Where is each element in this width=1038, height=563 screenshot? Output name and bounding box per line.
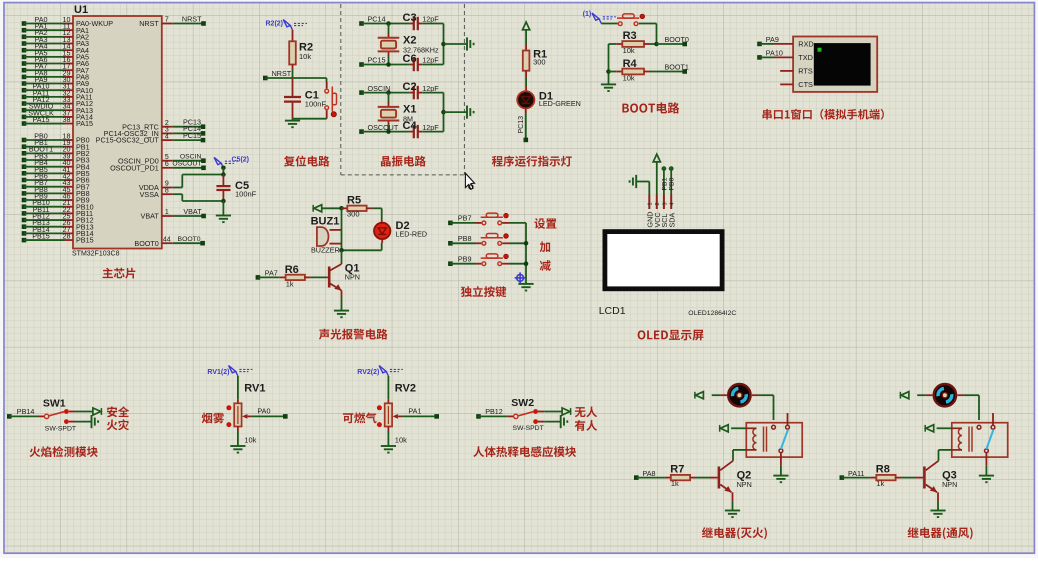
svg-text:LED-GREEN: LED-GREEN [539, 99, 581, 108]
svg-text:BUZ1: BUZ1 [311, 216, 340, 228]
svg-text:100nF: 100nF [235, 190, 257, 199]
label 声光报警电路 [319, 329, 388, 340]
transistor Q1 NPN [328, 263, 360, 311]
svg-text:PB8: PB8 [458, 234, 472, 243]
svg-text:PA7: PA7 [265, 269, 278, 278]
ground (Q2) [725, 511, 740, 518]
LED D2 LED-RED [342, 208, 428, 250]
node OSCIN rail [359, 84, 409, 95]
node PC14 rail [359, 15, 409, 26]
U1 left pin 31 PA10 [22, 82, 93, 95]
ground (C5) [216, 201, 231, 222]
U1 left pin 27 PB14 [22, 225, 94, 238]
capacitor C3 12pF [403, 12, 444, 30]
label 火焰检测模块 [30, 446, 98, 457]
svg-text:BUZZER: BUZZER [311, 246, 340, 255]
ground (BOOT) [601, 84, 616, 91]
svg-text:28: 28 [63, 231, 71, 240]
label 人体热释电感应模块 [473, 446, 576, 457]
svg-text:OLED12864I2C: OLED12864I2C [688, 310, 736, 317]
svg-text:R3: R3 [623, 30, 637, 42]
node BOOT0 [657, 35, 689, 47]
ground (X1) [467, 106, 474, 119]
label 复位电路 [284, 156, 330, 167]
svg-text:PB7: PB7 [458, 214, 472, 223]
power arrow (motor 通风) [900, 392, 932, 399]
pin PB0 to SDA [669, 166, 676, 194]
U1 right pin 1 VBAT [141, 207, 206, 221]
U1 right pin 4 PC15-OSC32_OUT [96, 131, 206, 145]
push button PB9 [448, 254, 526, 266]
capacitor C1 100nF [284, 78, 326, 119]
ground (RV1) [230, 427, 245, 453]
svg-text:PC15: PC15 [368, 56, 386, 65]
svg-text:BOOT0: BOOT0 [665, 35, 689, 44]
power arrow (alarm) [313, 205, 344, 212]
node OSCOUT rail [359, 123, 409, 134]
ground (relay contact 通风) [979, 453, 994, 483]
label 程序运行指示灯 [492, 156, 572, 167]
svg-text:TXD: TXD [798, 53, 813, 62]
svg-text:U1: U1 [74, 4, 88, 16]
U1 left pin 29 PA8 [22, 68, 89, 81]
pin CTS stub [780, 83, 793, 85]
label BOOT电路 [622, 102, 679, 113]
svg-text:PA11: PA11 [848, 469, 865, 478]
ground (buttons) [518, 284, 533, 291]
resistor R3 10k [609, 30, 659, 55]
node NRST wire [263, 69, 327, 80]
power arrow (R1) [523, 22, 530, 45]
probe C5(2) [214, 157, 249, 168]
svg-text:PB15: PB15 [76, 236, 94, 245]
ground (Q3) [930, 511, 945, 518]
svg-text:4: 4 [165, 133, 169, 140]
U1 right pin 44 BOOT0 [134, 236, 204, 248]
label 减 [540, 260, 551, 271]
U1 left pin 26 PB13 [22, 218, 94, 231]
BOOT push button [601, 14, 656, 44]
U1 left pin 10 PA0 [22, 15, 114, 28]
buzzer BUZ1 [311, 216, 342, 255]
crystal X2 32.768KHz [378, 24, 439, 65]
svg-text:R4: R4 [623, 58, 638, 70]
svg-text:2: 2 [655, 202, 661, 205]
svg-text:SDA: SDA [668, 213, 677, 228]
U1 left pin 18 PB0 [22, 131, 90, 144]
U1 left pin 38 PA15 [22, 115, 93, 128]
LED D1 LED-GREEN [517, 86, 581, 113]
motor (通风) [934, 384, 956, 406]
wire R3-R4 left rail [606, 44, 611, 84]
IC U1 STM32F103C8 body [72, 4, 162, 257]
U1 left pin 11 PA1 [22, 22, 89, 35]
svg-text:LCD1: LCD1 [599, 305, 626, 317]
ground (OLED GND) [630, 175, 650, 195]
svg-text:3: 3 [662, 202, 668, 205]
svg-text:C2: C2 [403, 81, 417, 93]
svg-text:1: 1 [165, 209, 169, 216]
svg-text:RV1: RV1 [244, 383, 265, 395]
dashed box 晶振电路 [341, 4, 465, 175]
ground 有人 [538, 415, 567, 428]
label 烟雾 [202, 413, 224, 424]
wire motor to relay [957, 395, 979, 420]
U1 left pin 13 PA3 [22, 35, 89, 48]
svg-text:PA9: PA9 [766, 35, 779, 44]
svg-text:R7: R7 [670, 463, 684, 475]
label 无人 [575, 406, 597, 417]
svg-text:RV2(2): RV2(2) [357, 369, 379, 376]
label 安全 [107, 406, 129, 417]
svg-text:38: 38 [63, 115, 71, 124]
switch SW1 SW-SPDT [7, 398, 76, 433]
label 串口1窗口（模拟手机端） [763, 109, 884, 120]
svg-text:10k: 10k [299, 52, 311, 61]
svg-text:R5: R5 [347, 195, 361, 207]
svg-text:PC15-OSC32_OUT: PC15-OSC32_OUT [96, 136, 160, 145]
svg-text:7: 7 [165, 17, 169, 24]
label 主芯片 [103, 268, 136, 279]
svg-text:NPN: NPN [345, 273, 360, 282]
transistor Q3 NPN [923, 461, 957, 511]
svg-text:PB0: PB0 [669, 177, 676, 190]
label OLED显示屏 [638, 330, 704, 341]
svg-text:VBAT: VBAT [183, 207, 202, 216]
resistor R2 10k [289, 30, 313, 78]
svg-text:1k: 1k [286, 279, 294, 288]
svg-text:SW-SPDT: SW-SPDT [45, 425, 76, 432]
svg-text:BOOT0: BOOT0 [134, 239, 158, 248]
label 有人 [575, 420, 597, 431]
label 设置 [534, 218, 556, 229]
svg-text:STM32F103C8: STM32F103C8 [72, 250, 120, 257]
svg-text:RV1(2): RV1(2) [207, 369, 229, 376]
svg-text:PA8: PA8 [643, 469, 656, 478]
U1 left pin 33 PA12 [22, 95, 93, 108]
relay RL (灭火) [746, 413, 802, 457]
power arrow (motor 灭火) [695, 392, 727, 399]
U1 right pin 6 OSCOUT_PD1 [110, 161, 206, 173]
svg-text:PB14: PB14 [17, 407, 35, 416]
svg-text:100nF: 100nF [305, 100, 327, 109]
svg-text:PB12: PB12 [485, 407, 503, 416]
power arrow (coil 灭火) [720, 425, 747, 432]
origin marker [515, 272, 526, 283]
wire alarm vertical [339, 208, 344, 262]
resistor R8 1k [840, 463, 924, 488]
U1 left pin 17 PA7 [22, 62, 89, 75]
potentiometer RV1 10k [226, 376, 265, 444]
node PC15 rail [359, 56, 409, 67]
U1 left pin 34 SWDIO [22, 102, 93, 115]
svg-text:10k: 10k [623, 73, 635, 82]
svg-text:10k: 10k [395, 435, 407, 444]
svg-text:1k: 1k [671, 479, 679, 488]
wire wiper to PA1 [402, 407, 439, 419]
ground (RV2) [381, 427, 396, 453]
push button PB8 [448, 234, 526, 246]
svg-text:RXD: RXD [798, 40, 813, 49]
wire PA9 to RXD [757, 35, 793, 46]
svg-text:R6: R6 [285, 264, 299, 276]
capacitor C4 12pF [403, 120, 444, 138]
label 晶振电路 [381, 156, 426, 167]
svg-text:12pF: 12pF [422, 123, 439, 132]
svg-text:OSCOUT_PD1: OSCOUT_PD1 [110, 163, 159, 172]
svg-text:PC13: PC13 [518, 116, 525, 134]
power arrow 无人 [538, 408, 571, 415]
ground (X2) [467, 37, 474, 50]
U1 left pin 37 SWCLK [22, 108, 93, 121]
power arrow (coil 通风) [925, 425, 952, 432]
U1 left pin 43 PB7 [22, 178, 90, 191]
svg-text:PC14: PC14 [368, 15, 386, 24]
U1 left pin 21 PB10 [22, 198, 94, 211]
svg-text:C6: C6 [403, 53, 417, 65]
svg-text:(1): (1) [583, 11, 592, 18]
svg-text:R2(2): R2(2) [266, 21, 284, 28]
svg-text:PA15: PA15 [32, 115, 49, 124]
U1 left pin 12 PA2 [22, 28, 89, 41]
crystal X1 8M [378, 93, 417, 132]
transistor Q2 NPN [718, 461, 752, 511]
wire button bus [524, 223, 529, 284]
wire PC13 net [518, 113, 528, 142]
svg-text:10k: 10k [623, 46, 635, 55]
svg-text:1: 1 [648, 202, 654, 205]
resistor R6 1k [256, 264, 328, 289]
label 可燃气 [343, 412, 377, 423]
U1 left pin 32 PA11 [22, 88, 93, 101]
U1 left pin 25 PB12 [22, 211, 94, 224]
wire PA10 to TXD [757, 49, 793, 60]
wire motor to relay [752, 395, 774, 420]
svg-text:VSSA: VSSA [140, 190, 159, 199]
svg-text:BOOT1: BOOT1 [665, 62, 689, 71]
svg-text:PB9: PB9 [458, 255, 472, 264]
svg-text:6: 6 [165, 161, 169, 168]
svg-text:PB15: PB15 [32, 231, 50, 240]
svg-text:PB1: PB1 [661, 177, 668, 190]
capacitor C5 100nF [216, 166, 256, 204]
U1 right pin 9 VDDA [139, 181, 182, 192]
motor (灭火) [728, 384, 750, 406]
svg-text:NRST: NRST [139, 19, 159, 28]
U1 left pin 22 PB11 [22, 205, 93, 218]
wire VSSA branch [182, 194, 223, 201]
resistor R7 1k [634, 463, 718, 488]
reset push button [293, 78, 337, 119]
svg-text:OSCIN: OSCIN [180, 154, 202, 161]
resistor R4 10k [609, 58, 689, 83]
U1 left pin 40 PB4 [22, 158, 90, 171]
U1 left pin 45 PB8 [22, 185, 90, 198]
svg-text:44: 44 [163, 236, 171, 243]
svg-text:PA1: PA1 [408, 407, 421, 416]
svg-text:PA15: PA15 [76, 119, 93, 128]
svg-text:SW1: SW1 [43, 398, 66, 410]
OLED header pins [645, 195, 676, 228]
wire wiper to PA0 [252, 407, 288, 419]
switch SW2 SW-SPDT [476, 397, 544, 432]
svg-text:300: 300 [347, 209, 360, 218]
U1 left pin 28 PB15 [22, 231, 94, 244]
wire VDDA branch [182, 175, 223, 188]
potentiometer RV2 10k [377, 376, 416, 444]
svg-text:C3: C3 [403, 12, 417, 24]
probe (1) [583, 11, 616, 24]
U1 left pin 30 PA9 [22, 75, 89, 88]
wire right rail X2 [441, 24, 467, 65]
relay RL (通风) [952, 413, 1008, 457]
svg-text:PC15: PC15 [183, 131, 201, 140]
capacitor C2 12pF [403, 81, 444, 99]
power arrow (OLED VCC) [653, 154, 660, 194]
U1 right pin 7 NRST [139, 14, 206, 28]
pin RTS stub [780, 70, 793, 72]
OLED LCD1 screen [599, 232, 737, 317]
svg-text:PA10: PA10 [766, 49, 783, 58]
resistor R5 300 [342, 195, 382, 219]
U1 right pin 2 PC13_RTC [122, 118, 205, 132]
svg-text:1k: 1k [876, 479, 884, 488]
U1 left pin 20 BOOT1 [22, 145, 90, 158]
probe RV2(2) [357, 366, 403, 376]
U1 left pin 19 PB1 [22, 138, 90, 151]
wire coil to collector [939, 450, 952, 461]
push button PB7 [448, 213, 526, 225]
virtual terminal box [793, 37, 877, 92]
svg-text:NPN: NPN [737, 480, 752, 489]
svg-text:OSCOUT: OSCOUT [172, 161, 201, 168]
svg-text:4: 4 [670, 202, 676, 205]
svg-text:LED-RED: LED-RED [396, 230, 428, 239]
svg-text:C5(2): C5(2) [232, 157, 250, 164]
pin PB1 to SCL [661, 166, 668, 194]
svg-text:NRST: NRST [272, 69, 292, 78]
svg-text:C4: C4 [403, 120, 418, 132]
power arrow 安全 [69, 408, 102, 415]
U1 left pin 42 PB6 [22, 171, 90, 184]
svg-text:12pF: 12pF [422, 84, 439, 93]
U1 left pin 46 PB9 [22, 191, 90, 204]
U1 right pin 3 PC14-OSC32_IN [104, 124, 206, 138]
svg-text:SW2: SW2 [511, 397, 534, 409]
label 继电器(灭火) [702, 527, 767, 539]
svg-text:PA0: PA0 [257, 407, 270, 416]
resistor R1 300 [523, 45, 547, 87]
svg-text:12pF: 12pF [422, 56, 439, 65]
capacitor C6 12pF [403, 53, 444, 71]
svg-text:12pF: 12pF [422, 15, 439, 24]
mouse cursor [465, 173, 474, 189]
ground 火灾 [69, 415, 98, 428]
U1 left pin 41 PB5 [22, 165, 90, 178]
U1 left pin 15 PA5 [22, 48, 89, 61]
svg-text:SW-SPDT: SW-SPDT [513, 425, 544, 432]
label 独立按键 [461, 286, 506, 297]
svg-text:OSCOUT: OSCOUT [368, 123, 399, 132]
probe R2(2) [266, 20, 308, 30]
U1 left pin 39 PB3 [22, 151, 90, 164]
svg-text:R8: R8 [876, 463, 890, 475]
svg-text:BOOT0: BOOT0 [178, 236, 201, 243]
ground (relay contact 灭火) [773, 453, 788, 483]
probe RV1(2) [207, 366, 252, 376]
U1 right pin 8 VSSA [140, 187, 183, 198]
svg-text:300: 300 [533, 57, 546, 66]
svg-text:CTS: CTS [798, 80, 813, 89]
ground (reset) [285, 119, 300, 128]
ground (Q1) [334, 311, 349, 318]
wire coil to collector [733, 450, 746, 461]
svg-text:NPN: NPN [942, 480, 957, 489]
svg-text:8: 8 [165, 187, 169, 194]
svg-text:NRST: NRST [182, 14, 202, 23]
label 继电器(通风) [908, 527, 973, 539]
svg-text:RTS: RTS [798, 67, 813, 76]
svg-text:5: 5 [165, 154, 169, 161]
U1 left pin 16 PA6 [22, 55, 89, 68]
svg-text:RV2: RV2 [395, 383, 416, 395]
svg-text:VBAT: VBAT [141, 212, 160, 221]
label 加 [540, 241, 550, 252]
wire right rail X1 [441, 93, 467, 132]
label 火灾 [107, 419, 129, 430]
U1 right pin 5 OSCIN_PD0 [118, 154, 206, 166]
svg-text:10k: 10k [244, 435, 256, 444]
U1 left pin 14 PA4 [22, 42, 89, 55]
